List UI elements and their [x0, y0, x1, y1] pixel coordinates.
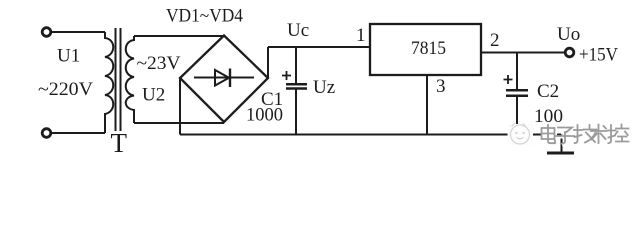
capacitor C1 plates	[286, 84, 307, 88]
wire bridge right corner up to Uc node	[267, 47, 269, 78]
bridge rectifier VD1~VD4 diamond	[180, 36, 268, 123]
diode symbol inside bridge	[194, 77, 254, 79]
capacitor C1 bottom lead	[295, 90, 297, 135]
svg-text:100: 100	[534, 106, 563, 127]
svg-text:3: 3	[436, 76, 446, 97]
wire bridge left corner down to ground bus	[179, 78, 181, 135]
watermark text 电子技术控 (hand-drawn strokes)	[543, 126, 630, 145]
watermark logo circle	[508, 123, 534, 145]
transformer primary winding	[105, 32, 113, 133]
transformer secondary winding	[126, 36, 134, 123]
terminal: AC input top	[42, 28, 51, 37]
wire 7815 pin 2 output	[481, 52, 565, 54]
wire Uc node to 7815 pin 1	[268, 46, 370, 48]
svg-text:Uc: Uc	[287, 20, 309, 41]
wire secondary top to bridge	[134, 35, 224, 37]
C1 plus sign	[282, 71, 291, 80]
terminal: AC input bottom	[42, 129, 51, 138]
capacitor C2 bottom lead	[516, 97, 518, 135]
wire 7815 pin 3 down to ground bus	[426, 75, 428, 135]
svg-text:~220V: ~220V	[38, 79, 93, 100]
svg-text:C2: C2	[537, 81, 559, 102]
ground symbol stub	[561, 135, 563, 152]
output terminal circle	[565, 48, 574, 57]
transformer core	[116, 28, 121, 131]
svg-text:U2: U2	[142, 85, 165, 106]
regulator 7815 box	[370, 24, 481, 75]
svg-text:1: 1	[356, 25, 366, 46]
svg-text:7815: 7815	[411, 38, 446, 59]
capacitor C1 top lead	[295, 47, 297, 83]
capacitor C2 top lead	[516, 53, 518, 90]
ground bus wire	[180, 134, 561, 136]
svg-text:1000: 1000	[246, 105, 283, 126]
wire bottom-left	[52, 132, 106, 134]
svg-text:2: 2	[490, 30, 500, 51]
capacitor C2 plates	[506, 90, 528, 96]
svg-text:~23V: ~23V	[137, 53, 181, 74]
wire top-left	[51, 31, 105, 33]
svg-text:U1: U1	[57, 46, 80, 67]
svg-text:T: T	[111, 128, 128, 158]
svg-text:Uz: Uz	[313, 77, 335, 98]
svg-text:Uo: Uo	[557, 24, 580, 45]
wire secondary bottom to bridge	[134, 122, 224, 124]
svg-text:VD1~VD4: VD1~VD4	[166, 6, 243, 27]
C2 plus sign	[504, 75, 513, 84]
svg-text:+15V: +15V	[579, 45, 618, 66]
ground symbol bar	[547, 152, 574, 155]
